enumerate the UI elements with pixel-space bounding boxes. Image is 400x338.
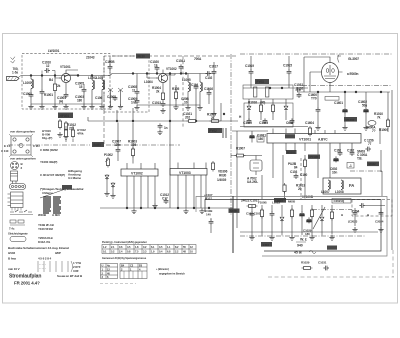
tube socket bottom view <box>11 162 19 170</box>
variable resistor diagonal <box>313 207 325 229</box>
svg-text:50µ: 50µ <box>362 104 367 108</box>
svg-text:700A: 700A <box>194 57 202 61</box>
dark label 1403 <box>261 242 272 247</box>
svg-text:R1001: R1001 <box>44 93 53 97</box>
svg-text:FR 2001 4.4?: FR 2001 4.4? <box>14 281 40 286</box>
svg-text:R1009: R1009 <box>379 128 388 132</box>
svg-text:C684: C684 <box>286 121 294 125</box>
svg-text:T.B.: T.B. <box>357 157 362 161</box>
right vertical bus x=392 <box>391 90 393 250</box>
svg-text:LW1001: LW1001 <box>48 49 60 53</box>
resistor R2016 <box>330 210 333 221</box>
junction dots second stage <box>156 73 158 75</box>
page border frame <box>3 34 398 304</box>
inner enclosure box <box>205 200 381 252</box>
grounds on bus <box>131 209 136 214</box>
svg-text:1Y100B: 1Y100B <box>302 195 314 199</box>
svg-text:L1008: L1008 <box>335 190 344 194</box>
inductor L1006 <box>200 82 203 92</box>
svg-text:C1031: C1031 <box>318 261 327 265</box>
wire input bus y=75.5 <box>21 75 110 77</box>
svg-text:Y100 5F1M: Y100 5F1M <box>38 227 53 231</box>
inductor L1007 <box>328 180 331 190</box>
svg-text:C 3060 (0/202: C 3060 (0/202 <box>40 148 58 152</box>
svg-text:10: 10 <box>184 101 188 105</box>
small box -1 <box>347 163 354 169</box>
svg-text:7?: 7? <box>372 129 376 133</box>
svg-text:VT1001: VT1001 <box>60 65 71 69</box>
svg-text:-1: -1 <box>349 164 352 168</box>
wire bus y=92 <box>300 91 390 93</box>
resistor R1019 <box>271 103 274 114</box>
dashed shield box LW1001 <box>22 54 110 110</box>
capacitor C2014 electrolytic <box>300 211 305 217</box>
svg-text:A.BYC: A.BYC <box>318 138 328 142</box>
svg-text:140: 140 <box>206 213 211 217</box>
IC box VT1003 <box>170 169 207 176</box>
main measurement table <box>102 245 196 254</box>
svg-text:B fma: B fma <box>8 257 16 261</box>
detector box FY02 <box>244 103 293 127</box>
svg-text:FE30: FE30 <box>138 55 146 59</box>
input connector X1001 <box>7 77 20 81</box>
dash-dot segment right <box>312 209 352 211</box>
svg-text:C102: C102 <box>296 87 304 91</box>
svg-text:R030: R030 <box>219 174 227 178</box>
svg-text:L1001: L1001 <box>23 81 32 85</box>
svg-text:(C2023: (C2023 <box>348 220 358 224</box>
svg-text:4F0k: 4F0k <box>77 132 84 136</box>
dashed screen vertical x=104 <box>103 56 105 144</box>
svg-text:180: 180 <box>305 232 310 236</box>
resistor R1018 <box>259 103 262 114</box>
legend row 2 <box>10 220 16 223</box>
tube socket top view <box>11 136 31 155</box>
capacitor C2010 <box>250 211 255 217</box>
svg-text:3 8F: 3 8F <box>73 269 79 273</box>
svg-text:C1023: C1023 <box>259 121 268 125</box>
coil former R1016 <box>254 87 257 97</box>
diode V1004 <box>111 182 115 188</box>
inductor L1003 <box>102 80 105 90</box>
ground bus line stage 2 <box>137 104 200 106</box>
svg-text:7.4c: 7.4c <box>9 227 15 231</box>
dark label M1301 <box>286 150 297 154</box>
IF transformer box <box>243 85 293 99</box>
svg-text:3.1 Marne: 3.1 Marne <box>68 176 81 180</box>
svg-text:von unten gesehen: von unten gesehen <box>10 157 36 161</box>
dashed screen line top <box>112 55 238 57</box>
dark label H0B3 <box>274 198 286 203</box>
svg-text:B4: B4 <box>49 78 53 82</box>
IC box VT1001 <box>267 134 361 144</box>
svg-text:C1601: C1601 <box>334 101 343 105</box>
tube GL3007 <box>322 63 339 83</box>
crystal A7001 <box>250 160 262 171</box>
svg-text:15: 15 <box>79 85 83 89</box>
bottom bus y=208 <box>100 207 233 209</box>
grounds row <box>249 235 254 240</box>
svg-text:Gleichrichtgerate: Gleichrichtgerate <box>8 232 28 236</box>
svg-text:VT1001: VT1001 <box>299 138 311 142</box>
svg-text:180: 180 <box>77 99 82 103</box>
diode V1003 <box>105 174 109 180</box>
IC box VT1002 <box>121 169 158 176</box>
svg-text:24022: 24022 <box>241 199 250 203</box>
svg-text:H: H <box>367 213 369 217</box>
svg-text:C1013: C1013 <box>152 101 161 105</box>
svg-text:Stromlaufplan: Stromlaufplan <box>9 274 41 280</box>
svg-text:a E060n: a E060n <box>347 72 359 76</box>
resistor R2011 <box>260 208 263 219</box>
dark label PY105 <box>308 155 320 159</box>
dense parts list block <box>43 197 61 213</box>
svg-text:U: U <box>102 264 104 268</box>
electrolytic can <box>11 171 18 181</box>
svg-text:Su.aw.sn BT da2 B: Su.aw.sn BT da2 B <box>57 274 83 278</box>
svg-text:3 Marne: 3 Marne <box>42 191 53 195</box>
small aux box left of VT1001 <box>257 136 264 142</box>
svg-text:2k: 2k <box>57 84 61 88</box>
dark label FY03 <box>255 79 269 84</box>
capacitor C2024 <box>379 210 384 216</box>
svg-text:B490: B490 <box>94 143 102 147</box>
dark label M332 <box>367 162 379 167</box>
svg-text:1n2: 1n2 <box>131 101 137 105</box>
dark module label HF801 <box>58 113 73 119</box>
svg-text:PY105: PY105 <box>310 155 319 159</box>
resistor R2013 <box>290 208 293 219</box>
dark label B490 <box>92 142 104 147</box>
svg-text:R10?: R10? <box>205 197 212 201</box>
svg-text:K10A 4%: K10A 4% <box>38 240 50 244</box>
small table 2 left part <box>101 264 118 279</box>
trimmer transistor pair in osc box <box>108 88 123 92</box>
svg-text:F100B: F100B <box>258 201 267 205</box>
svg-text:R1007: R1007 <box>236 147 245 151</box>
svg-text:FY03: FY03 <box>257 80 265 84</box>
svg-text:H: H <box>341 213 343 217</box>
diode V2002 <box>320 216 324 222</box>
svg-text:C204: C204 <box>352 210 360 214</box>
dark label FY02 <box>208 128 222 133</box>
capacitor C2023 <box>353 210 358 216</box>
svg-text:E 1.1: E 1.1 <box>4 144 11 148</box>
svg-text:C162: C162 <box>347 149 355 153</box>
wire bottom bus y=126 <box>240 126 308 128</box>
svg-text:M1301: M1301 <box>287 150 296 154</box>
svg-text:4 5 6 2 8 4: 4 5 6 2 8 4 <box>38 257 52 261</box>
VT1003 pins <box>178 163 206 209</box>
svg-text:angegeben im Bereich: angegeben im Bereich <box>159 272 185 276</box>
inductor L1008 <box>341 180 344 190</box>
svg-text:C100: C100 <box>300 173 308 177</box>
svg-text:C2024: C2024 <box>375 220 384 224</box>
node dots on bus <box>30 75 32 77</box>
capacitor C2012 <box>270 211 275 217</box>
ground pin VT1002 <box>152 203 157 208</box>
svg-text:C161: C161 <box>334 149 342 153</box>
svg-text:M005: M005 <box>288 200 296 204</box>
capacitor C1029 <box>307 217 312 223</box>
svg-text:FY02: FY02 <box>210 129 218 133</box>
svg-text:Buchstabe Schalternummern 12: Buchstabe Schalternummern 12-Aug. Einans… <box>8 246 69 250</box>
svg-text:HF801: HF801 <box>60 114 70 118</box>
svg-text:180: 180 <box>258 137 263 141</box>
svg-text:C1?: C1? <box>162 197 168 201</box>
svg-text:FA: FA <box>349 183 354 188</box>
resistor R1011 below HF801 <box>58 119 61 130</box>
svg-text:202: 202 <box>185 116 190 120</box>
resistor R1021 <box>211 161 214 172</box>
wire x=380 <box>379 128 381 144</box>
wire y=88 <box>243 87 308 89</box>
connector strip 4 holes <box>10 184 26 190</box>
svg-text:L1004: L1004 <box>144 80 153 84</box>
vertical x=382 <box>381 171 383 196</box>
screen coil marks <box>223 128 226 138</box>
coil former second <box>266 87 269 97</box>
dash-dot line right of FA <box>350 170 382 172</box>
wire branch x=42 <box>41 76 43 90</box>
svg-text:UA 2/0L: UA 2/0L <box>247 180 258 184</box>
svg-text:Punkt (g) - Instrument (2k/V): Punkt (g) - Instrument (2k/V) gegenuber <box>102 240 147 244</box>
VT1001 pins top <box>273 129 335 134</box>
svg-text:C1604: C1604 <box>305 121 314 125</box>
dashed boundary bottom right <box>268 276 394 278</box>
svg-text:1403: 1403 <box>263 243 270 247</box>
dark label FE30 <box>136 54 150 59</box>
svg-text:9/102: 9/102 <box>8 251 15 255</box>
ground bus line RF box <box>31 103 102 105</box>
svg-text:C 4K12 6/7 4624(P): C 4K12 6/7 4624(P) <box>40 173 65 177</box>
dash-dot boundary y=145 <box>8 144 180 146</box>
svg-text:W10B: W10B <box>38 213 47 217</box>
outer enclosure box <box>196 197 387 257</box>
svg-text:C2021Q: C2021Q <box>334 199 345 203</box>
small table 2 right part <box>120 264 147 279</box>
svg-text:L1005: L1005 <box>182 78 191 82</box>
dark label M1600 <box>344 117 357 122</box>
dash-dot line inside box <box>240 235 365 237</box>
svg-text:C1015: C1015 <box>283 64 292 68</box>
resistor R2015 <box>310 208 313 219</box>
legend row 1: switch symbols <box>10 210 32 212</box>
antenna marks <box>11 57 15 63</box>
svg-text:45 æ: 45 æ <box>294 251 303 255</box>
svg-text:2k: 2k <box>156 90 160 94</box>
svg-text:77: 77 <box>368 142 372 146</box>
svg-text:940: 940 <box>297 244 303 248</box>
svg-text:R1016: R1016 <box>248 101 257 105</box>
long vertical feed x=170 <box>169 74 171 209</box>
grounds under resistors <box>57 132 62 137</box>
svg-text:. . . . .: . . . . . <box>39 266 46 270</box>
svg-text:1 δa: 1 δa <box>12 71 18 75</box>
svg-text:P1002: P1002 <box>104 153 113 157</box>
svg-text:C1019: C1019 <box>245 64 254 68</box>
svg-text:W. £: W. £ <box>300 238 307 242</box>
svg-text:M1600: M1600 <box>346 118 355 122</box>
grounds in osc box <box>108 104 113 109</box>
svg-text:C 110: C 110 <box>1 149 9 153</box>
svg-text:L1007: L1007 <box>321 190 330 194</box>
svg-text:C1017: C1017 <box>209 65 218 69</box>
resistor column far right <box>303 158 306 169</box>
diode V1002 <box>284 105 288 111</box>
wire y=131 <box>232 130 268 132</box>
svg-text:120n: 120n <box>114 143 121 147</box>
svg-text:12: 12 <box>46 64 50 68</box>
svg-text:L103: L103 <box>96 76 103 80</box>
cap + ground tap <box>158 123 163 129</box>
svg-text:R1029: R1029 <box>301 261 310 265</box>
svg-text:C106: C106 <box>95 96 103 100</box>
svg-text:11: 11 <box>132 89 135 93</box>
svg-text:VT1002: VT1002 <box>131 172 143 176</box>
small value label box <box>325 97 339 101</box>
svg-text:105: 105 <box>131 143 136 147</box>
resistors HY010 HY012 <box>64 128 67 139</box>
capacitor C204 <box>359 203 365 208</box>
label box C2021Q <box>332 199 351 204</box>
dark label M730 on VT1001 <box>285 134 295 138</box>
strong vertical divider x=233 <box>232 196 234 253</box>
dashed screen vertical x=183 <box>182 56 184 128</box>
svg-text:1n: 1n <box>164 126 168 130</box>
svg-text:C1020: C1020 <box>243 121 252 125</box>
FA module box <box>323 178 361 194</box>
svg-text:VT1002: VT1002 <box>166 67 177 71</box>
terminal ladder <box>11 192 24 208</box>
dark label M703 <box>327 246 337 250</box>
svg-text:7k: 7k <box>377 116 381 120</box>
pin stub marks <box>12 208 21 211</box>
svg-text:84: 84 <box>294 166 298 170</box>
dash-dot screen vertical x=231 <box>230 54 232 215</box>
svg-text:M332: M332 <box>369 162 377 166</box>
svg-text:L1022: L1022 <box>272 201 280 205</box>
svg-text:+ (Bimotor): + (Bimotor) <box>156 267 169 271</box>
VT1001 pins bottom <box>273 143 352 178</box>
main wire bus y=73.5 <box>108 74 215 76</box>
svg-text:Y1000 40k(P): Y1000 40k(P) <box>40 160 57 164</box>
wire bus inside box <box>240 231 378 233</box>
svg-text:21043: 21043 <box>86 56 95 60</box>
svg-text:9/6P: 9/6P <box>55 251 61 255</box>
svg-text:1/4039: 1/4039 <box>217 178 226 182</box>
svg-text:GL3007: GL3007 <box>348 57 359 61</box>
dashed aux box bottom right <box>352 200 392 217</box>
dash-dot screen line top right <box>240 53 392 55</box>
svg-text:C 2H: C 2H <box>33 144 39 148</box>
dash-dot line under tube <box>302 85 392 87</box>
svg-text:M005: M005 <box>230 209 238 213</box>
dashed box oscillator <box>104 56 149 112</box>
svg-text:10n: 10n <box>332 171 337 175</box>
svg-text:min 10 V: min 10 V <box>8 267 20 271</box>
svg-text:(H): (H) <box>59 100 63 104</box>
long horizontal bus y=121 <box>88 120 238 122</box>
svg-text:Gemessen D (B) Og Spannungsmes: Gemessen D (B) Og Spannungsmesse <box>102 256 147 260</box>
svg-text:C102: C102 <box>205 76 213 80</box>
dark label B80 <box>62 185 72 190</box>
svg-text:VT1003: VT1003 <box>179 171 191 175</box>
grounds <box>104 191 109 196</box>
vertical feed x=237 <box>236 131 238 228</box>
svg-text:81g~(P): 81g~(P) <box>42 136 52 140</box>
VT1002 pins <box>127 163 155 208</box>
faint dash bottom <box>100 283 136 285</box>
dark label M005 <box>229 209 240 213</box>
svg-text:C1031: C1031 <box>176 59 185 63</box>
svg-text:C1016: C1016 <box>204 87 213 91</box>
svg-text:von oben gesehen: von oben gesehen <box>10 130 35 134</box>
vertical x=381 <box>380 150 382 172</box>
svg-text:A 3E0: A 3E0 <box>52 213 60 217</box>
diode V1001 <box>247 105 251 111</box>
ground symbols bottom of RF box <box>28 104 33 109</box>
svg-text:C103: C103 <box>290 170 298 174</box>
dashed vertical screen <box>300 158 302 199</box>
diode V2001 <box>280 216 284 222</box>
svg-text:TY0: TY0 <box>311 97 317 101</box>
dashed vertical right <box>392 250 394 277</box>
